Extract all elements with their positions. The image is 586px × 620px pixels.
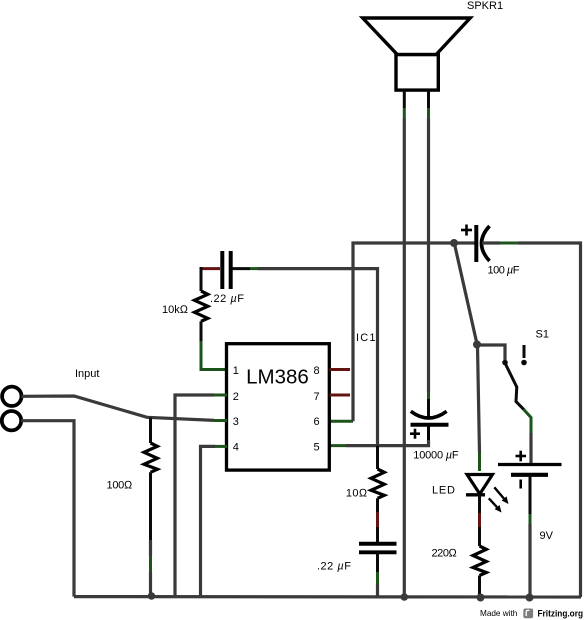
wire junction to capacitor C4 bbox=[454, 241, 476, 244]
wire input signal to pin3 bbox=[21, 396, 227, 421]
resistor R2 100ohm bbox=[144, 443, 157, 472]
wire feedback net (.22uF C1 to output node) bbox=[258, 269, 378, 446]
svg-text:4: 4 bbox=[233, 442, 239, 454]
capacitor C1 .22uF bbox=[222, 251, 230, 289]
wire resistor R2 to ground bbox=[149, 472, 152, 596]
capacitor C2 10000uF bbox=[410, 411, 449, 444]
wire capacitor C1 right lead bbox=[233, 267, 259, 270]
wire LED to resistor R4 bbox=[478, 495, 481, 546]
wire speaker right lead (pin stub) bbox=[427, 90, 430, 118]
wire output node to resistor R3 bbox=[376, 446, 379, 469]
svg-text:S1: S1 bbox=[536, 329, 549, 341]
wire capacitor C3 to ground bbox=[376, 553, 379, 597]
svg-text:LM386: LM386 bbox=[246, 365, 309, 388]
switch S1 bbox=[502, 345, 527, 388]
wire switch to battery bbox=[516, 387, 531, 465]
node LED/switch junction bbox=[473, 341, 481, 349]
node ground LED branch bbox=[477, 594, 485, 602]
wire resistor R4 to ground bbox=[478, 576, 481, 598]
svg-text:5: 5 bbox=[314, 442, 320, 454]
input jack J1 bottom bbox=[2, 411, 21, 430]
svg-text:SPKR1: SPKR1 bbox=[467, 0, 503, 12]
svg-text:1: 1 bbox=[233, 365, 239, 377]
svg-text:10000 µF: 10000 µF bbox=[413, 450, 459, 462]
wire speaker right to capacitor C2 bbox=[427, 118, 430, 420]
wire junction diagonal to LED node bbox=[455, 244, 478, 344]
wire pin5 output to capacitor C2 bbox=[329, 440, 429, 446]
svg-text:LED: LED bbox=[432, 485, 456, 497]
wire pin2 to ground bbox=[175, 395, 227, 597]
speaker SPKR1 bbox=[363, 18, 471, 90]
node power junction bbox=[450, 239, 458, 247]
wire capacitor C1 to resistor R1 bbox=[200, 267, 203, 291]
svg-text:Made with: Made with bbox=[480, 609, 518, 618]
svg-text:9V: 9V bbox=[540, 530, 554, 542]
wire input return to ground bbox=[21, 421, 74, 597]
svg-text:.22 µF: .22 µF bbox=[317, 561, 351, 573]
resistor R1 10kohm bbox=[195, 291, 208, 321]
svg-text:100Ω: 100Ω bbox=[107, 480, 133, 492]
resistor R4 220ohm bbox=[473, 546, 486, 576]
input jack J1 top bbox=[2, 387, 21, 406]
wire battery negative to ground bbox=[529, 475, 532, 597]
wire speaker left to ground bbox=[403, 118, 406, 597]
svg-text:.22 µF: .22 µF bbox=[210, 293, 244, 305]
watermark Made with Fritzing.org bbox=[480, 609, 583, 619]
wire red segment to capacitor C1 bbox=[200, 267, 221, 270]
wire junction to switch S1 bbox=[477, 345, 505, 360]
battery BT1 9V bbox=[498, 451, 562, 489]
svg-text:10kΩ: 10kΩ bbox=[162, 304, 189, 316]
wire capacitor C4 to right rail bbox=[482, 241, 582, 244]
svg-text:220Ω: 220Ω bbox=[432, 548, 458, 560]
wire pin4 to ground bbox=[201, 446, 228, 596]
capacitor C4 100uF bbox=[461, 225, 490, 263]
node ground R2 bbox=[148, 592, 156, 600]
LED D1 bbox=[466, 475, 509, 513]
resistor R3 10ohm bbox=[371, 469, 384, 498]
svg-text:Fritzing.org: Fritzing.org bbox=[538, 609, 584, 619]
capacitor C3 .22uF bbox=[359, 544, 397, 553]
pin 8 stub (unconnected) bbox=[330, 368, 351, 371]
wire pin6 to power rail bbox=[329, 243, 454, 421]
wire ground rail bbox=[74, 595, 581, 599]
wire input to resistor R2 bbox=[149, 418, 152, 444]
svg-text:Input: Input bbox=[75, 368, 99, 380]
svg-text:6: 6 bbox=[314, 416, 320, 428]
svg-text:IC1: IC1 bbox=[356, 332, 377, 344]
op-amp U1 LM386 bbox=[227, 344, 330, 470]
pin 7 stub (unconnected) bbox=[330, 394, 351, 397]
svg-text:3: 3 bbox=[233, 416, 239, 428]
svg-text:2: 2 bbox=[233, 391, 239, 403]
node ground speaker bbox=[401, 593, 409, 601]
wire resistor R1 to pin1 bbox=[201, 321, 227, 369]
wire speaker left lead (pin stub) bbox=[403, 90, 406, 118]
wire right rail down to ground bbox=[579, 243, 582, 597]
wire resistor R3 to capacitor C3 bbox=[376, 498, 379, 543]
svg-text:8: 8 bbox=[314, 365, 320, 377]
wire LED node down bbox=[478, 346, 480, 471]
svg-text:100 µF: 100 µF bbox=[488, 265, 520, 277]
svg-text:7: 7 bbox=[314, 391, 320, 403]
svg-text:10Ω: 10Ω bbox=[346, 488, 368, 500]
node ground battery bbox=[526, 594, 534, 602]
